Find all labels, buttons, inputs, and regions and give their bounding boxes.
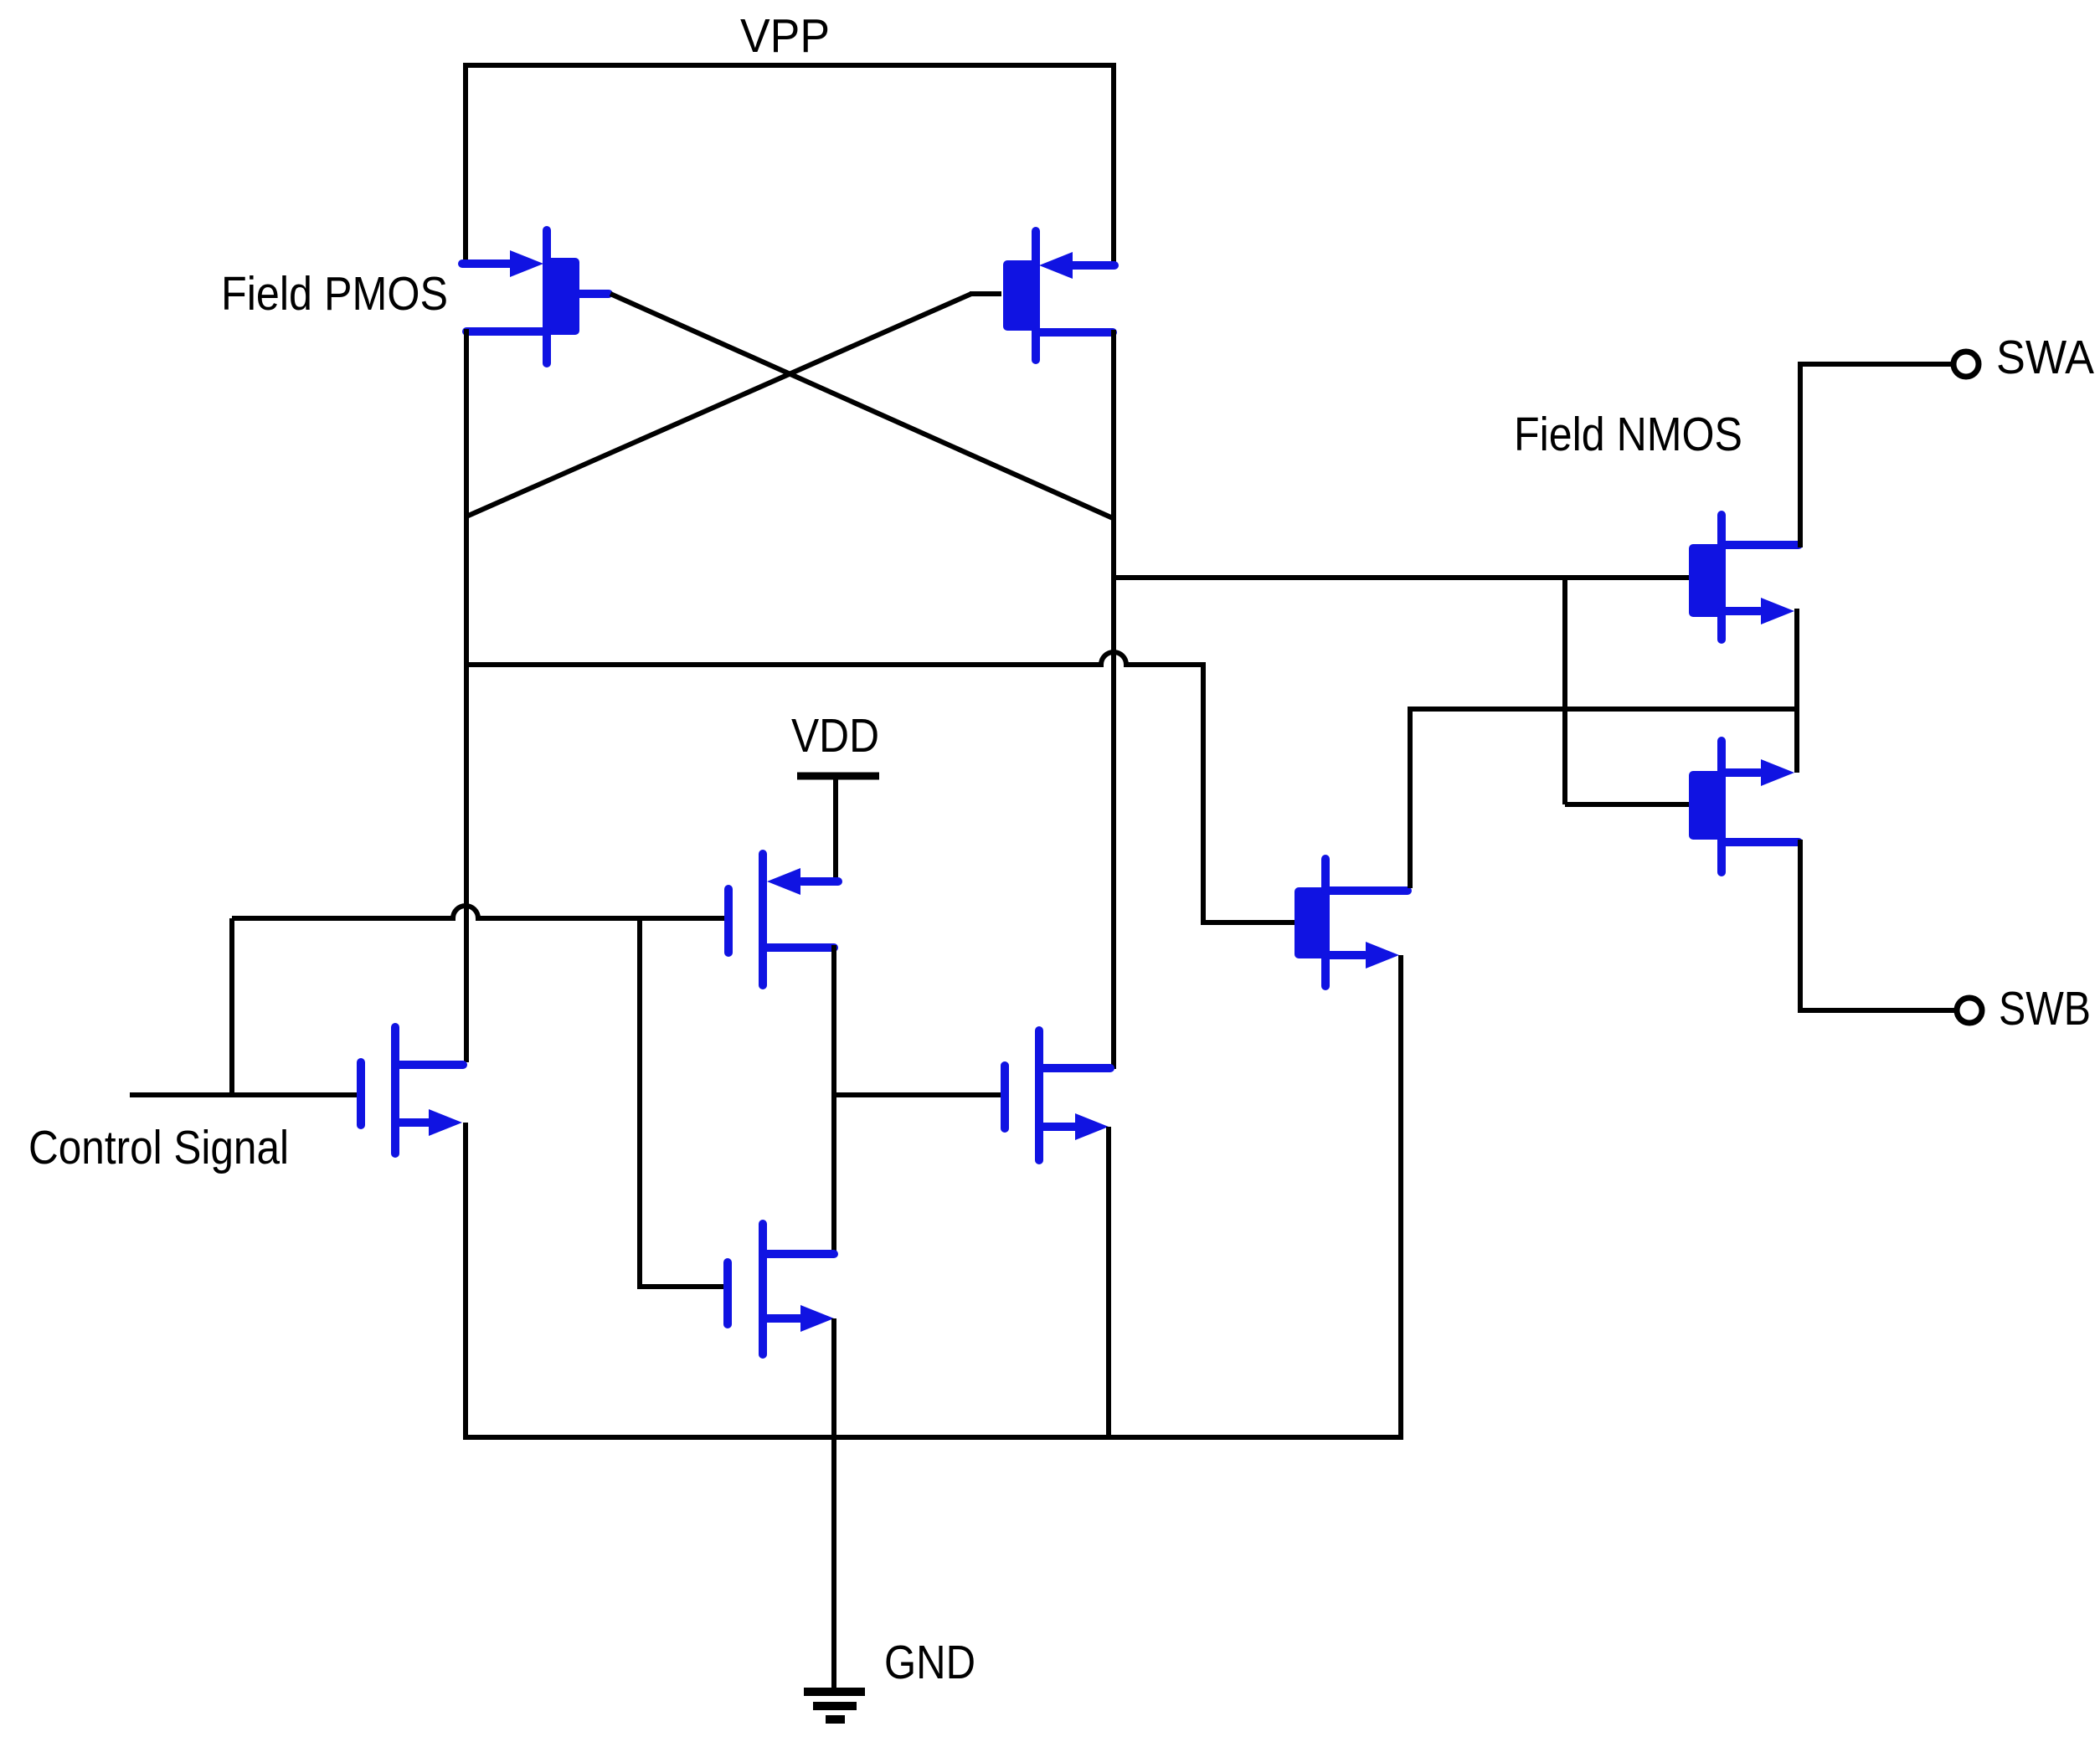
- svg-text:GND: GND: [884, 1636, 975, 1689]
- wire VDD stem: [833, 776, 838, 880]
- wire sources node horizontal: [1408, 707, 1797, 712]
- net label VDD: [791, 709, 879, 763]
- svg-text:Control Signal: Control Signal: [28, 1121, 289, 1174]
- label SWB: [1999, 982, 2091, 1035]
- wire cross-couple Q2 gate to left node: [466, 294, 971, 516]
- wire left node vertical (Q1 drain to Q6 drain): [464, 329, 469, 1062]
- transistor Q5 Field NMOS (bottom): [1693, 741, 1799, 872]
- svg-text:VPP: VPP: [740, 9, 830, 63]
- wire right node to Q4 gate: [1114, 575, 1691, 580]
- wire VPP left drop to Q1 source: [463, 63, 468, 264]
- svg-text:SWA: SWA: [1996, 331, 2094, 384]
- ground symbol: [804, 1692, 865, 1719]
- wire Q4 drain to SWA: [1800, 364, 1953, 547]
- svg-text:Field NMOS: Field NMOS: [1514, 408, 1742, 461]
- transistor Q3 Field NMOS (middle): [1299, 859, 1408, 986]
- wire Q5 drain to SWB: [1800, 840, 1957, 1010]
- label Control Signal: [28, 1121, 289, 1174]
- svg-text:Field PMOS: Field PMOS: [221, 267, 448, 321]
- wire control branch up: [229, 918, 234, 1092]
- label Field NMOS: [1514, 408, 1742, 461]
- transistor Q9 NMOS (right): [1005, 1030, 1110, 1160]
- wire VPP right drop to Q2 source: [1111, 63, 1116, 265]
- wire branch down to Q8 gate: [640, 916, 725, 1287]
- power symbol VDD bar: [797, 773, 879, 780]
- transistor Q7 PMOS (VDD): [728, 854, 838, 985]
- wire VPP rail: [463, 63, 1116, 68]
- wire node to Q9 gate: [831, 1092, 1001, 1097]
- wire control to gates (hop over left node): [232, 906, 726, 918]
- wire Q4/Q5 sources vertical: [1794, 609, 1799, 773]
- wire bottom rail: [463, 1435, 1403, 1440]
- wire right node vertical (Q2 drain to Q9 drain): [1111, 330, 1116, 1069]
- svg-text:SWB: SWB: [1999, 982, 2091, 1035]
- svg-text:VDD: VDD: [791, 709, 879, 763]
- transistor Q8 NMOS (inverter low side): [728, 1224, 834, 1354]
- wire cross-couple Q1 gate to right node: [610, 294, 1113, 518]
- wire Q8 source down to GND: [831, 1318, 836, 1693]
- net label GND: [884, 1636, 975, 1689]
- wire Q7 drain down to Q8 drain: [831, 945, 836, 1256]
- transistor Q4 Field NMOS (top): [1693, 515, 1799, 640]
- wire Q6 source down to rail: [463, 1123, 468, 1440]
- net label VPP: [740, 9, 830, 63]
- wire Q9 source down to rail: [1106, 1127, 1111, 1440]
- transistor Q1 Field PMOS (left): [462, 230, 609, 363]
- wire branch down to Q5 gate: [1562, 575, 1567, 804]
- terminal SWA: [1953, 352, 1979, 377]
- wire Q2 gate lead: [970, 291, 1001, 296]
- transistor Q2 Field PMOS (right): [1007, 231, 1114, 360]
- wire mid rail to Q3 gate (hop over right node): [466, 652, 1296, 922]
- wire Q3 drain up to sources node: [1408, 709, 1413, 888]
- transistor Q6 control NMOS: [361, 1027, 463, 1154]
- label Field PMOS: [221, 267, 448, 321]
- wire control input: [130, 1092, 359, 1097]
- label SWA: [1996, 331, 2094, 384]
- wire Q3 source down to rail: [1398, 955, 1403, 1440]
- wire branch to Q5 gate horizontal: [1565, 802, 1691, 807]
- terminal SWB: [1957, 998, 1982, 1023]
